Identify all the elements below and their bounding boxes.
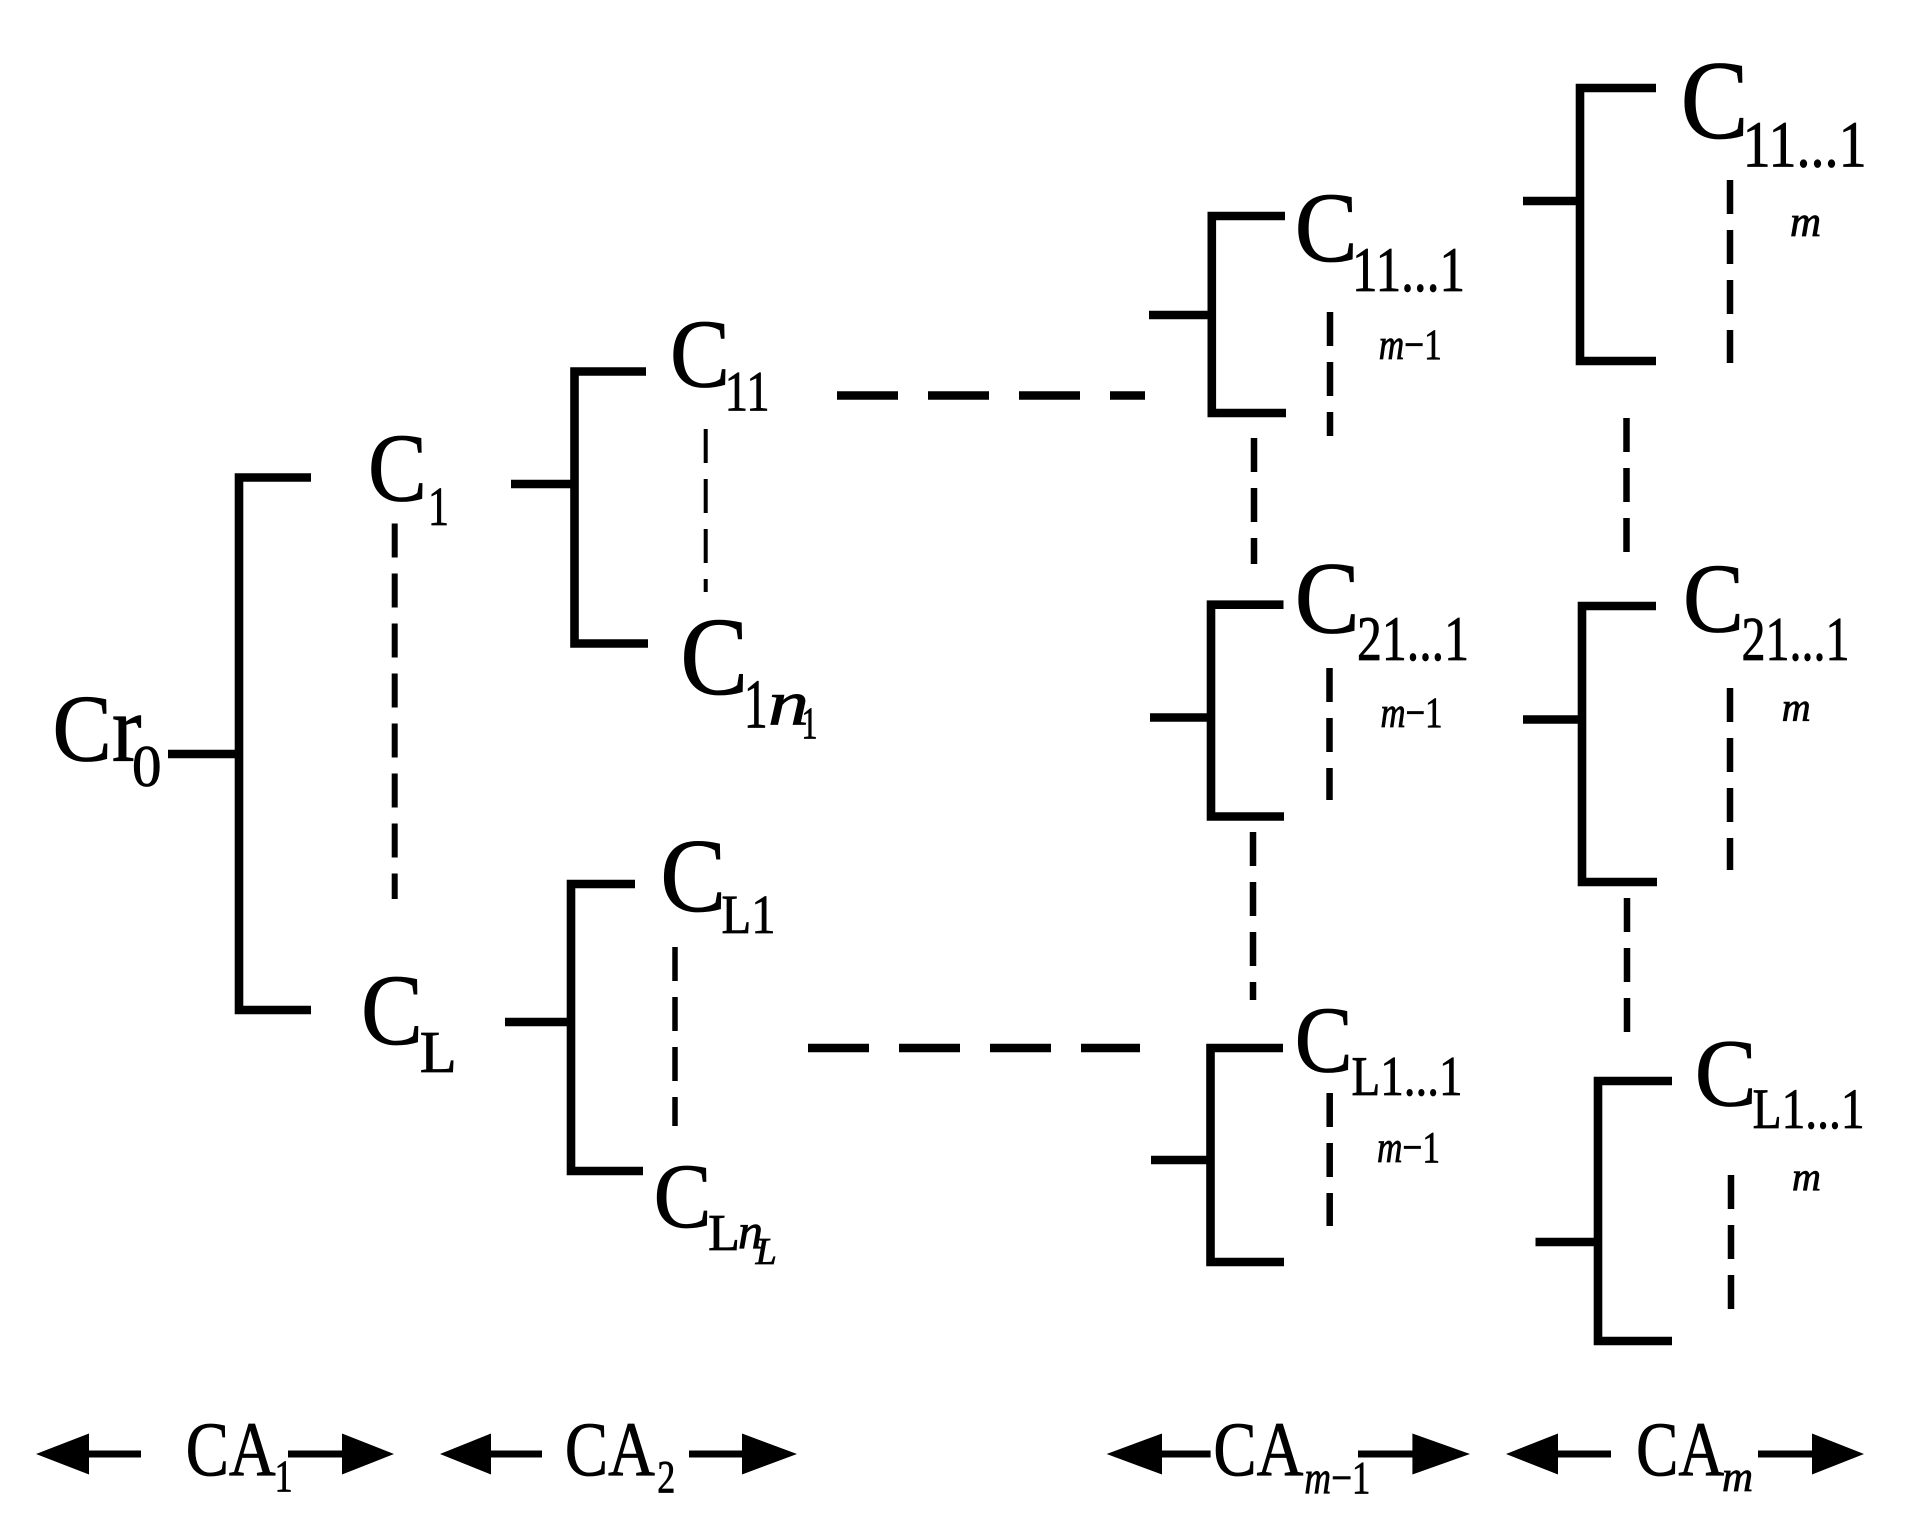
bracket B8 C21..1(m) xyxy=(1582,606,1657,882)
arrow span CAm-1 xyxy=(1107,1434,1470,1475)
dashed wire below C11..1(m-1) xyxy=(1327,312,1334,436)
svg-text:C: C xyxy=(368,415,427,522)
svg-text:C: C xyxy=(1295,172,1358,283)
wire CL to bracket xyxy=(505,1018,571,1027)
svg-text:C: C xyxy=(680,596,748,719)
node label C21..1 m-1 xyxy=(1295,541,1469,737)
wire into bracket B8 xyxy=(1523,715,1582,724)
svg-text:C: C xyxy=(1295,989,1353,1093)
svg-text:CA: CA xyxy=(186,1406,276,1492)
dashed wire CL1..CLnL xyxy=(672,947,678,1126)
node label CLnL xyxy=(654,1145,777,1273)
dashed wire B5..CL1..1(m-1) xyxy=(1250,832,1257,1000)
wire into bracket B4 xyxy=(1149,311,1212,320)
bracket B6 CL1..1(m-1) xyxy=(1211,1048,1285,1262)
bracket B9 CL1..1(m) xyxy=(1598,1081,1672,1341)
bracket B3 CL-children xyxy=(571,884,643,1171)
svg-text:1: 1 xyxy=(744,667,768,744)
svg-text:C: C xyxy=(1683,545,1744,654)
svg-text:21...1: 21...1 xyxy=(1742,606,1850,674)
svg-text:C: C xyxy=(361,954,423,1066)
arrow span CAm xyxy=(1506,1434,1864,1475)
node label C11..1 m xyxy=(1681,39,1867,246)
bracket B1 level-1 xyxy=(239,478,311,1011)
stage label CAm xyxy=(1636,1406,1753,1501)
wire C1 to bracket xyxy=(511,480,572,489)
dashed wire below C21..1(m) xyxy=(1727,688,1734,870)
svg-text:C: C xyxy=(1295,541,1360,655)
svg-text:CA: CA xyxy=(1213,1406,1303,1492)
arrow span CA1 xyxy=(36,1434,394,1475)
svg-text:L1...1: L1...1 xyxy=(1352,1046,1463,1108)
svg-text:CA: CA xyxy=(1636,1406,1724,1492)
svg-text:2: 2 xyxy=(657,1452,675,1504)
svg-text:11...1: 11...1 xyxy=(1352,234,1465,305)
node label Cr0 xyxy=(53,676,162,800)
svg-text:m: m xyxy=(1790,199,1821,246)
svg-text:L1...1: L1...1 xyxy=(1753,1078,1865,1141)
svg-text:21...1: 21...1 xyxy=(1357,604,1469,674)
node label C1n1 xyxy=(680,596,817,749)
svg-text:0: 0 xyxy=(132,733,162,799)
node label C11..1 m-1 xyxy=(1295,172,1465,369)
dashed wire below CL1..1(m-1) xyxy=(1326,1093,1333,1226)
wire into bracket B9 xyxy=(1536,1238,1599,1247)
dashed wire B7..C21..1(m) xyxy=(1623,418,1630,567)
svg-text:m: m xyxy=(1782,685,1811,730)
arrow span CA2 xyxy=(440,1434,797,1475)
stage label CA1 xyxy=(186,1406,293,1502)
svg-text:m: m xyxy=(1722,1454,1753,1501)
svg-text:L: L xyxy=(755,1231,777,1273)
dashed wire below C21..1(m-1) xyxy=(1326,668,1333,800)
dashed wire C11 to B4 xyxy=(837,391,1145,399)
dashed wire B8..CL1..1(m) xyxy=(1624,898,1631,1033)
node label CL xyxy=(361,954,457,1085)
stage label CAm-1 xyxy=(1213,1406,1370,1505)
bracket B5 C21..1(m-1) xyxy=(1211,605,1284,817)
wire into bracket B5 xyxy=(1150,713,1211,722)
svg-text:m: m xyxy=(1792,1154,1821,1199)
node label C21..1 m xyxy=(1683,545,1850,730)
dashed wire B4..B5 xyxy=(1251,438,1258,564)
wire into bracket B7 xyxy=(1523,197,1580,206)
svg-text:m−1: m−1 xyxy=(1379,322,1442,369)
svg-text:C: C xyxy=(1681,39,1749,163)
svg-text:1: 1 xyxy=(428,476,449,537)
wire Cr0 lead xyxy=(168,750,235,759)
svg-text:CA: CA xyxy=(565,1406,655,1492)
node label CL1..1 m-1 xyxy=(1295,989,1463,1173)
svg-text:C: C xyxy=(660,817,726,934)
svg-text:L: L xyxy=(420,1019,457,1085)
dashed wire below CL1..1(m) xyxy=(1728,1175,1735,1315)
dashed wire C1..CL xyxy=(392,524,398,900)
svg-text:m−1: m−1 xyxy=(1304,1453,1370,1505)
wire into bracket B6 xyxy=(1151,1156,1211,1165)
svg-text:1: 1 xyxy=(802,699,818,749)
node label C11 xyxy=(670,301,770,424)
node label CL1..1 m xyxy=(1695,1020,1865,1200)
svg-text:C: C xyxy=(670,301,730,409)
dashed wire below C11..1(m) xyxy=(1727,180,1734,363)
bracket B7 C11..1(m) xyxy=(1580,88,1656,361)
bracket B2 C1-children xyxy=(575,372,649,644)
dashed wire CL1 to B6 xyxy=(808,1044,1140,1052)
svg-text:L1: L1 xyxy=(722,884,776,945)
stage label CA2 xyxy=(565,1406,675,1504)
svg-text:m−1: m−1 xyxy=(1381,690,1443,737)
svg-text:C: C xyxy=(654,1145,712,1247)
dashed wire C11..C1n1 xyxy=(704,429,708,592)
svg-text:C: C xyxy=(1695,1020,1757,1127)
svg-text:L: L xyxy=(708,1205,740,1262)
svg-text:Cr: Cr xyxy=(53,676,142,782)
svg-text:11: 11 xyxy=(725,361,770,424)
svg-text:m−1: m−1 xyxy=(1377,1123,1440,1172)
bracket B4 C11..1(m-1) xyxy=(1212,216,1286,413)
svg-text:1: 1 xyxy=(275,1452,293,1502)
node label CL1 xyxy=(660,817,775,945)
node label C1 xyxy=(368,415,449,538)
svg-text:11...1: 11...1 xyxy=(1743,109,1867,182)
